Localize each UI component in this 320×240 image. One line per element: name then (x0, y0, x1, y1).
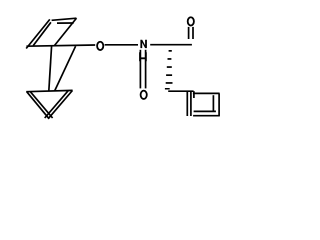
wire C=O double bond top right, line 2 (192, 27, 194, 39)
atom label N (vector glyph) (140, 40, 147, 48)
ring aromatic ring 3 left double line 1 (186, 92, 188, 116)
ring aromatic ring 2 top edge (26, 90, 72, 91)
ring aromatic ring 3 bottom edge (193, 115, 220, 117)
atom label H on N (vector glyph) (139, 52, 147, 61)
wire lower chain horizontal (168, 90, 193, 92)
ring aromatic ring 3 left double line 2 (190, 92, 192, 116)
ring aromatic ring 2 left outer (27, 92, 49, 119)
wire diagonal bond D2 (55, 46, 76, 91)
ring aromatic ring 1 top edge (52, 18, 77, 20)
ring aromatic ring 3 top edge (193, 92, 220, 94)
ring aromatic ring 2 right inner (45, 91, 69, 118)
wire C=O double bond top right, line 1 (188, 27, 190, 39)
wire bond O to N (105, 44, 138, 46)
ring aromatic ring 2 right outer (48, 91, 72, 119)
wire ring 3 step vertical (193, 91, 195, 98)
ring aromatic ring 1 top inner line (57, 22, 74, 24)
ring aromatic ring 3 right edge (218, 93, 220, 115)
hashed wedge bond (165, 50, 173, 90)
ring aromatic ring 2 left inner (30, 92, 52, 118)
atom label O ester (vector glyph) (97, 42, 103, 50)
ring aromatic ring 3 inner right line (212, 95, 214, 111)
ring aromatic ring 3 inner bottom line (194, 110, 216, 112)
wire bond N to carbonyl C (150, 44, 192, 46)
wire main horizontal chain to O (26, 45, 95, 46)
ring aromatic ring 1 inner left diagonal (double bond inner) (33, 22, 51, 45)
wire vertical bond ring1 to ring2 (49, 46, 52, 92)
ring aromatic ring 1 outer left diagonal (double bond outer) (26, 19, 50, 48)
ring aromatic ring 1 right diagonal (55, 18, 77, 45)
wire N=O double bond below N, line 2 (145, 50, 147, 89)
atom label O below N (vector glyph) (141, 91, 147, 99)
atom label O aldehyde (vector glyph) (188, 17, 194, 25)
wire N=O double bond below N, line 1 (139, 50, 141, 89)
